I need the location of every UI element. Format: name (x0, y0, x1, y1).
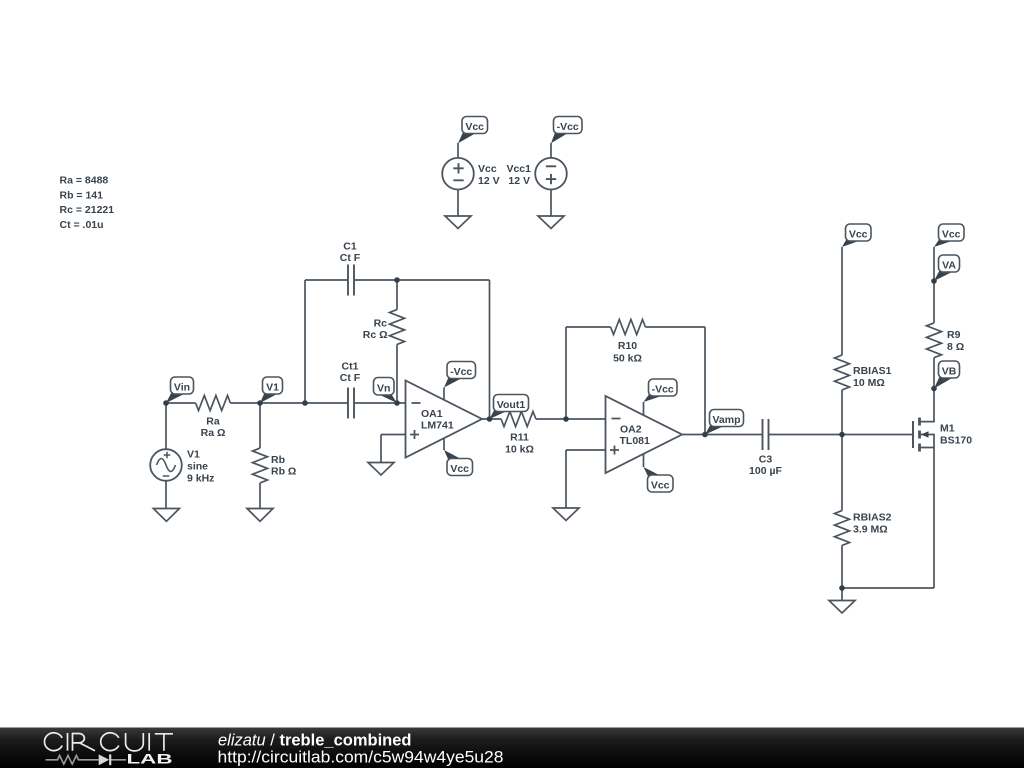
svg-text:10 kΩ: 10 kΩ (505, 444, 534, 456)
node Vn junction dot (394, 400, 400, 406)
wire Rb top lead (259, 403, 261, 448)
svg-text:R10: R10 (618, 340, 637, 352)
svg-text:V1: V1 (266, 382, 279, 394)
node Vout1 junction dot (487, 416, 493, 422)
ground under Rb (247, 509, 273, 522)
node bottom rail junction dot (839, 585, 845, 591)
capacitor Ct1 plates (348, 388, 354, 419)
node flag Vcc (OA1 V+) (444, 450, 473, 476)
svg-text:Vcc1: Vcc1 (506, 163, 531, 175)
wire M1 body tie (920, 435, 935, 448)
svg-text:3.9 MΩ: 3.9 MΩ (853, 524, 888, 536)
wire Vcc flag down to RBIAS1 (841, 247, 843, 355)
wire RBIAS2 bottom to ground node (841, 545, 843, 600)
svg-text:TL081: TL081 (620, 435, 651, 447)
node flag VB (934, 361, 960, 389)
node flag Vcc (R9 branch) (934, 224, 964, 247)
svg-text:M1: M1 (940, 423, 955, 435)
resistor Rb zigzag (253, 448, 268, 483)
wire Vcc flag to V_Vcc top (457, 143, 459, 158)
svg-text:Ct F: Ct F (340, 252, 361, 264)
svg-text:Ra = 8488: Ra = 8488 (60, 175, 109, 187)
wire OA1 output to R11 (482, 418, 501, 420)
ground OA2 noninverting input (553, 508, 579, 521)
svg-text:-Vcc: -Vcc (652, 384, 674, 396)
svg-text:Vn: Vn (377, 383, 390, 395)
op-amp OA2 (TL081) (606, 396, 683, 473)
wire OA1 V+ power pin (443, 439, 445, 450)
svg-text:elizatu / treble_combined: elizatu / treble_combined (218, 732, 412, 750)
node flag Vcc (OA2 V+) (644, 467, 674, 492)
node flag VA (934, 255, 960, 281)
svg-text:-Vcc: -Vcc (450, 366, 472, 378)
svg-text:Vcc: Vcc (465, 121, 484, 133)
node junction dot C1/Rc (394, 277, 400, 283)
capacitor C3 plates (763, 419, 769, 450)
svg-text:10 MΩ: 10 MΩ (853, 377, 885, 389)
voltage source V1 (sine 9 kHz) (150, 449, 182, 481)
node junction dot to C1 loop (302, 400, 308, 406)
wire C3 right plate to M1 gate (769, 434, 914, 436)
wire M1 source to bottom rail (920, 448, 935, 589)
node flag V1 (260, 377, 283, 403)
svg-text:VB: VB (942, 366, 957, 378)
svg-text:12 V: 12 V (508, 175, 530, 187)
wire node V1 junction up to C1 loop (304, 280, 306, 403)
svg-text:100 µF: 100 µF (749, 465, 782, 477)
wire Ra to node V1 to Ct1 left plate (230, 402, 348, 404)
capacitor C1 plates (348, 265, 354, 296)
wire OA1 V- power pin (443, 388, 445, 400)
svg-text:LM741: LM741 (421, 420, 454, 432)
ground OA1 noninverting input (368, 463, 394, 476)
svg-text:R11: R11 (510, 432, 529, 444)
svg-text:Vin: Vin (174, 382, 190, 394)
node VA junction dot (931, 278, 937, 284)
node flag Vout1 (490, 395, 529, 420)
svg-text:9 kHz: 9 kHz (187, 473, 214, 485)
wire Ct1 right plate to OA1 inverting input (354, 402, 406, 404)
svg-text:http://circuitlab.com/c5w94w4y: http://circuitlab.com/c5w94w4ye5u28 (218, 749, 504, 767)
logo resistor-diode symbol (46, 755, 127, 764)
node flag Vin (166, 377, 194, 403)
resistor R10 zigzag (611, 320, 646, 335)
wire Vin node to Ra (166, 402, 196, 404)
wire Vcc flag down to R9 (933, 247, 935, 323)
svg-text:50 kΩ: 50 kΩ (613, 353, 642, 365)
wire V1 source bottom to ground (165, 481, 167, 509)
wire Rc top lead (396, 280, 398, 310)
ground under V_Vcc (445, 216, 471, 229)
svg-text:Vamp: Vamp (712, 414, 740, 426)
node VB junction dot (931, 386, 937, 392)
voltage source V_Vcc1 (Vcc1 12 V, inverted) (535, 158, 567, 190)
svg-text:BS170: BS170 (940, 435, 972, 447)
svg-text:12 V: 12 V (478, 175, 500, 187)
wire feedback2 junction up (565, 327, 567, 419)
wire OA1 noninverting input down to ground (380, 435, 382, 463)
wire OA2 V- power pin (643, 402, 645, 415)
svg-text:VA: VA (942, 260, 956, 272)
resistor R9 zigzag (927, 323, 942, 358)
wire -Vcc flag to V_Vcc1 top (550, 143, 552, 158)
svg-text:8 Ω: 8 Ω (947, 341, 964, 353)
svg-text:Rb: Rb (271, 454, 285, 466)
svg-text:Ra Ω: Ra Ω (201, 427, 226, 439)
wire bottom ground rail to M1 source branch (842, 587, 934, 589)
node flag Vamp (705, 410, 744, 435)
svg-text:OA1: OA1 (421, 408, 443, 420)
node flag -Vcc (OA1 V-) (444, 362, 476, 388)
svg-text:-Vcc: -Vcc (557, 121, 579, 133)
wire V_Vcc bottom to ground (457, 190, 459, 216)
svg-text:Rc = 21221: Rc = 21221 (60, 204, 115, 216)
node Vamp junction dot (702, 432, 708, 438)
wire V_Vcc1 bottom to ground (550, 190, 552, 216)
wire feedback2 right side down to OA2 output (704, 327, 706, 435)
svg-text:Vcc: Vcc (849, 229, 868, 241)
node flag -Vcc (OA2 V-) (644, 379, 678, 402)
svg-text:Rc: Rc (374, 318, 388, 330)
wire OA1 noninverting input left (381, 434, 406, 436)
svg-text:RBIAS2: RBIAS2 (853, 512, 892, 524)
svg-text:Vcc: Vcc (478, 163, 497, 175)
svg-text:Ct F: Ct F (340, 372, 361, 384)
wire top loop left to C1 left plate (305, 279, 348, 281)
wire C1 right plate to right corner (354, 279, 490, 281)
svg-text:Rb Ω: Rb Ω (271, 466, 296, 478)
node Vin junction dot (163, 400, 169, 406)
wire OA2 noninverting input down to ground (565, 450, 567, 508)
svg-text:C3: C3 (759, 454, 773, 466)
svg-text:Vcc: Vcc (651, 480, 670, 492)
wire Vin node to V1 source top (165, 403, 167, 449)
wire OA2 output to C3 left plate (682, 434, 763, 436)
wire R10 to top right corner (645, 326, 705, 328)
wire OA2 noninverting input left (566, 449, 606, 451)
node flag Vn (374, 378, 398, 404)
footer bar (0, 728, 1024, 768)
svg-text:V1: V1 (187, 449, 200, 461)
svg-text:sine: sine (187, 461, 208, 473)
ground under V1 (153, 509, 179, 522)
svg-text:LAB: LAB (127, 751, 173, 767)
resistor RBIAS2 zigzag (835, 511, 850, 546)
wire Rc bottom lead (396, 344, 398, 403)
svg-text:OA2: OA2 (620, 424, 642, 436)
node flag Vcc (RBIAS branch) (842, 224, 871, 247)
wire R9 bottom through VB to M1 drain bend (920, 358, 935, 422)
resistor Rc zigzag (390, 310, 405, 345)
svg-text:Ct1: Ct1 (342, 361, 359, 373)
wire R11 to junction to OA2 inverting input (536, 418, 606, 420)
op-amp OA1 (LM741) (406, 381, 483, 458)
node flag -Vcc (top source) (551, 117, 582, 144)
resistor RBIAS1 zigzag (835, 355, 850, 390)
svg-text:Ra: Ra (206, 416, 220, 428)
resistor Ra zigzag (196, 396, 231, 411)
svg-text:Rc Ω: Rc Ω (363, 329, 388, 341)
node junction dot R11/R10 (563, 416, 569, 422)
node flag Vcc (top source) (458, 117, 488, 144)
node V1 junction dot (257, 400, 263, 406)
logo CIRCUIT wordmark (drawn letters) (44, 733, 173, 751)
ground under V_Vcc1 (538, 216, 564, 229)
svg-text:Vcc: Vcc (942, 229, 961, 241)
svg-text:Vout1: Vout1 (497, 399, 526, 411)
wire OA2 V+ power pin (643, 454, 645, 467)
wire feedback2 top left segment to R10 (566, 326, 611, 328)
resistor R11 zigzag (501, 412, 536, 427)
wire RBIAS1 to junction to RBIAS2 (841, 390, 843, 511)
voltage source V_Vcc (Vcc 12 V) (442, 158, 474, 190)
wire feedback right side down to OA1 output (489, 280, 491, 419)
svg-text:Rb = 141: Rb = 141 (60, 189, 104, 201)
svg-text:Ct = .01u: Ct = .01u (60, 219, 104, 231)
svg-text:R9: R9 (947, 329, 961, 341)
transistor M1 (BS170 NMOS) (913, 418, 929, 452)
svg-text:Vcc: Vcc (450, 463, 469, 475)
node junction dot RBIAS (839, 432, 845, 438)
svg-text:C1: C1 (343, 241, 357, 253)
ground bottom rail (829, 601, 855, 614)
svg-text:RBIAS1: RBIAS1 (853, 365, 892, 377)
wire Rb bottom lead to ground (259, 483, 261, 509)
